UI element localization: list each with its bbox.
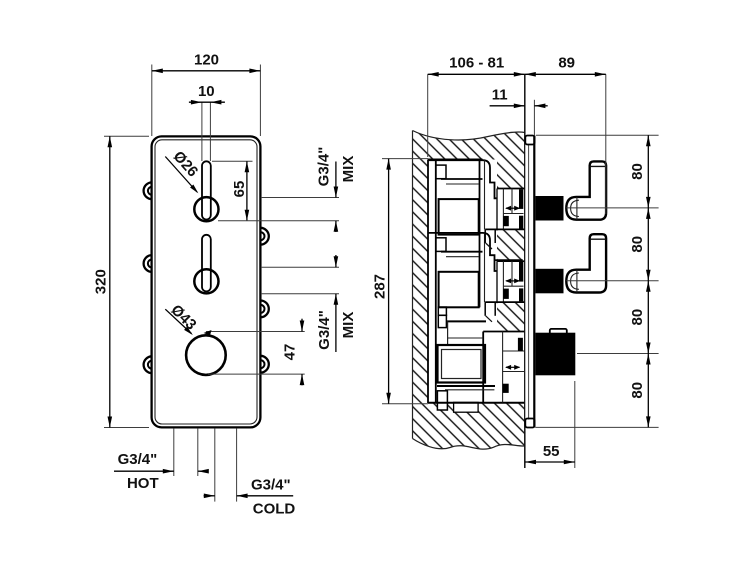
- svg-text:G3/4": G3/4": [316, 310, 333, 350]
- recess box bottom: [428, 402, 525, 404]
- svg-text:80: 80: [629, 382, 646, 399]
- plate bottom cap: [525, 419, 534, 428]
- dim 106-81 (recess depth): [427, 74, 429, 157]
- right port 1 (mix outlet): [260, 228, 268, 245]
- svg-text:47: 47: [282, 344, 299, 361]
- lever handle 1 (side): [536, 196, 564, 221]
- thermostat bottom flange: [437, 385, 495, 387]
- dim 11 (plate thickness): [533, 100, 535, 136]
- dim G3/4 HOT: [114, 470, 174, 472]
- handle slot 2: [202, 235, 211, 292]
- dim 80 x4: [647, 135, 649, 427]
- cover plate (side): [525, 136, 534, 427]
- plate inner outline: [155, 140, 257, 424]
- leader Ø43: [165, 309, 191, 333]
- dim 55: [574, 381, 576, 468]
- dim 89 (projection): [605, 74, 607, 214]
- svg-text:MIX: MIX: [340, 156, 357, 183]
- svg-text:G3/4": G3/4": [251, 477, 291, 494]
- recess box interior: [428, 160, 497, 404]
- recess box back walls: [427, 160, 429, 404]
- thermostat cartridge (section): [447, 320, 486, 322]
- bottom tray: [454, 402, 479, 412]
- left port 3 (hot inlet): [144, 356, 152, 373]
- dim 287 (body height): [382, 158, 428, 160]
- wall back edge: [412, 131, 414, 439]
- plate outer outline: [152, 136, 261, 427]
- thermostat body outer: [438, 345, 486, 383]
- svg-text:G3/4": G3/4": [316, 147, 333, 187]
- svg-text:89: 89: [558, 54, 575, 71]
- wall wedge between cartridge 2 and thermostat: [485, 301, 525, 303]
- left port 2: [144, 255, 152, 272]
- dim 80 stack extension lines: [536, 134, 659, 136]
- wall wedge between cartridge 1 and 2: [485, 228, 525, 230]
- mixer cartridge 2 (section): [428, 233, 497, 271]
- handle knob circle 1 (Ø26): [194, 197, 218, 221]
- dim 65 (slot to knob): [212, 160, 253, 162]
- svg-text:80: 80: [629, 163, 646, 180]
- thermostat front box interior: [502, 332, 504, 403]
- right port 2 (mix outlet): [260, 301, 268, 318]
- svg-text:55: 55: [543, 443, 560, 460]
- torn wall edge (top): [413, 131, 525, 140]
- hot/cold extension lines: [173, 429, 175, 476]
- wall cross-section hatch: [413, 131, 525, 450]
- mixer cartridge 1 (section): [428, 160, 497, 198]
- wall surface line: [524, 74, 526, 468]
- svg-text:MIX: MIX: [340, 312, 357, 339]
- dim 120 (plate width): [151, 65, 153, 137]
- svg-text:106 - 81: 106 - 81: [449, 54, 504, 71]
- svg-text:287: 287: [372, 274, 389, 299]
- svg-text:HOT: HOT: [127, 475, 159, 492]
- svg-text:10: 10: [198, 83, 215, 100]
- torn wall edge (bottom): [413, 439, 525, 450]
- thermostat knob (side, black): [550, 329, 567, 335]
- lever handle 2 (side): [536, 269, 564, 294]
- svg-text:11: 11: [492, 87, 508, 104]
- plate top cap: [525, 136, 534, 145]
- recess box top: [428, 159, 483, 161]
- dim 10 (slot width): [201, 102, 203, 161]
- right port 3 (cold inlet): [260, 356, 268, 373]
- svg-text:65: 65: [231, 181, 248, 198]
- dim G3/4 COLD: [204, 495, 215, 497]
- thermostat knob circle (Ø43): [186, 335, 226, 375]
- mix outlet dim (top): [261, 197, 339, 199]
- leader Ø26: [165, 157, 197, 193]
- svg-text:G3/4": G3/4": [118, 451, 158, 468]
- dim 320 (plate height): [104, 135, 149, 137]
- mix outlet dim (bottom): [261, 266, 339, 268]
- thermostat bottom screw: [437, 391, 447, 410]
- svg-text:80: 80: [629, 236, 646, 253]
- svg-text:COLD: COLD: [253, 501, 296, 518]
- dim 47 (thermostat knob): [206, 331, 305, 333]
- svg-text:80: 80: [629, 309, 646, 326]
- left port 1: [144, 182, 152, 199]
- svg-text:120: 120: [194, 52, 219, 69]
- svg-text:320: 320: [93, 269, 110, 294]
- handle slot 1: [202, 161, 211, 219]
- handle knob circle 2 (Ø26): [194, 269, 218, 293]
- thermostat body inner: [442, 350, 482, 379]
